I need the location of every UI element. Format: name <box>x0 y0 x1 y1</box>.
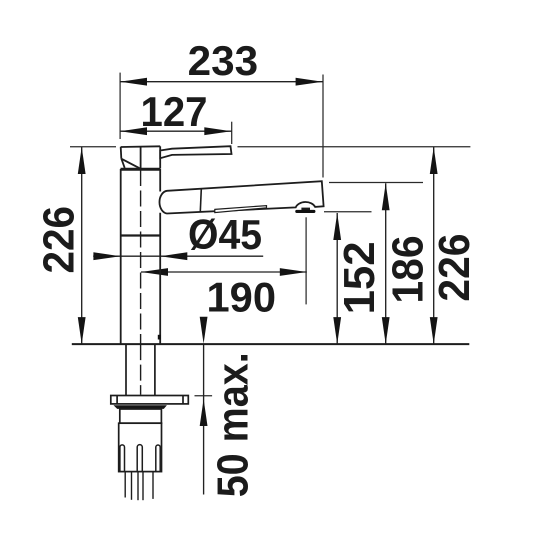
dimension line 127 <box>120 130 232 132</box>
svg-text:186: 186 <box>384 236 433 304</box>
svg-text:152: 152 <box>335 241 384 314</box>
arrow d45 left <box>93 252 120 260</box>
arrow 127 right <box>204 127 231 135</box>
dimension line 190 <box>141 271 307 273</box>
faucet head left edge <box>120 147 123 159</box>
shank center line dashed <box>140 344 142 395</box>
aerator inner rect <box>301 208 310 211</box>
arrow 233 left <box>120 78 147 86</box>
mounting block <box>119 423 162 471</box>
body right edge lower <box>159 213 161 344</box>
extension line top level right segment <box>238 146 471 148</box>
extension line outlet for 152 <box>324 211 372 213</box>
arrow 226 right bottom <box>430 317 438 344</box>
spray head lower strip <box>215 206 267 213</box>
counter reference line <box>72 343 470 345</box>
spray head seam <box>200 189 201 212</box>
arrow 50max down (above counter) <box>200 317 208 344</box>
shank right <box>154 344 156 395</box>
extension line top level left segment <box>70 146 116 148</box>
faucet head center line <box>140 146 142 168</box>
flange plate <box>111 396 189 404</box>
faucet head right edge <box>159 146 161 168</box>
body left edge <box>120 169 122 344</box>
arrow 226 left bottom <box>78 317 86 344</box>
slot center <box>137 445 142 472</box>
dimension line 226 left <box>81 147 83 344</box>
dimension line 186 <box>385 183 387 344</box>
faucet head inner diagonal <box>122 159 140 168</box>
svg-text:50 max.: 50 max. <box>208 352 257 497</box>
arrow 226 right top <box>430 147 438 174</box>
extension tick flange top for 50 max <box>195 395 213 397</box>
arrow 186 top <box>382 183 390 210</box>
svg-text:226: 226 <box>35 206 84 274</box>
svg-text:233: 233 <box>188 37 259 84</box>
hose line 2 <box>131 472 133 500</box>
gasket <box>114 405 167 409</box>
hose line 5 <box>152 472 154 499</box>
slot left <box>120 445 125 472</box>
arrow d45 right <box>160 252 187 260</box>
svg-text:190: 190 <box>207 274 277 321</box>
hose line 1 <box>124 472 126 498</box>
extension line spout top for 186 <box>329 182 423 184</box>
arrow 190 left <box>141 268 168 276</box>
dimension line 233 <box>120 81 323 83</box>
detail dot on body <box>158 335 161 340</box>
svg-text:226: 226 <box>430 234 479 302</box>
dimension line 226 right <box>433 147 435 344</box>
dimension line d45 <box>93 255 263 257</box>
svg-text:127: 127 <box>141 88 208 135</box>
faucet head top <box>121 145 161 148</box>
shank left <box>125 344 127 395</box>
hose line 4 <box>142 472 144 500</box>
head bottom thick joint <box>121 168 161 171</box>
mounting ring <box>120 409 162 423</box>
arrow 186 bottom <box>382 317 390 344</box>
extension line right of 233 (spout tip) <box>322 75 324 178</box>
dimension line 152 <box>336 213 338 344</box>
arrow 233 right <box>296 78 323 86</box>
arrow 152 bottom <box>333 317 341 344</box>
dimension line 50 max <box>203 344 205 494</box>
spout outline <box>159 181 323 213</box>
arrow 226 left top <box>78 147 86 174</box>
body right edge upper <box>159 169 161 192</box>
arrow 127 left <box>120 127 147 135</box>
body joint line <box>121 234 161 236</box>
arrow 190 right <box>280 268 307 276</box>
aerator bottom bar <box>295 210 315 213</box>
lever handle <box>160 146 231 158</box>
slot right <box>156 445 160 472</box>
extension line right of 127 (lever tip) <box>231 122 233 144</box>
arrow 50max up (below flange) <box>200 399 208 426</box>
hose line 3 <box>137 472 139 500</box>
flange inner right <box>182 396 184 404</box>
arrow 152 top <box>333 213 341 240</box>
body center line dashed <box>140 170 142 344</box>
extension line outlet center for 190 <box>305 217 307 304</box>
flange inner left <box>116 396 118 404</box>
extension line left (233/127) <box>119 73 121 139</box>
faucet head chamfer <box>121 158 124 168</box>
svg-text:Ø45: Ø45 <box>188 211 262 258</box>
